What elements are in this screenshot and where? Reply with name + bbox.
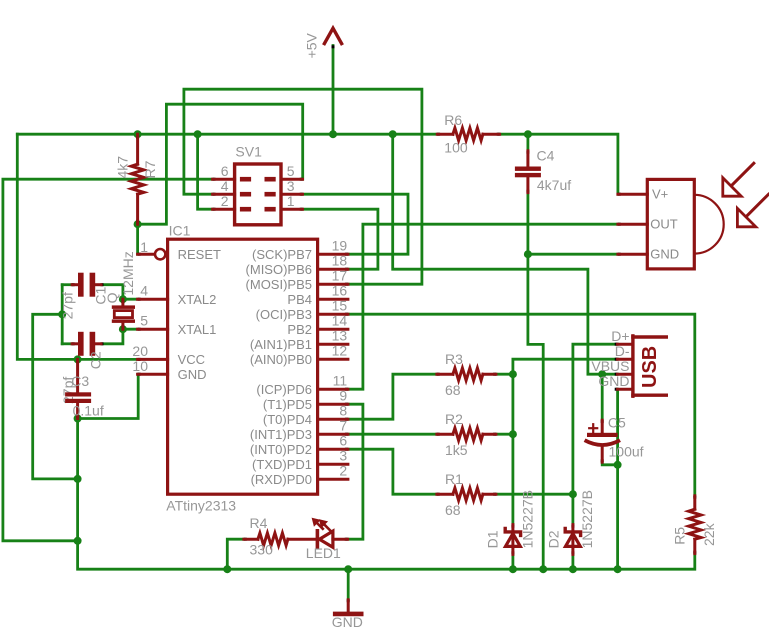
IC1 right pin numbers	[332, 238, 348, 479]
connector USB body	[633, 336, 666, 396]
svg-text:4k7uf: 4k7uf	[537, 177, 571, 193]
resistor R4	[244, 533, 316, 545]
wire IR GND to C4 node	[528, 253, 618, 256]
svg-text:C2: C2	[87, 351, 103, 369]
node R1 D+ junction	[569, 490, 577, 498]
IC1 pin 10 stub	[138, 373, 168, 376]
label SV1 pin numbers	[221, 163, 295, 209]
wire C4 bottom to GND rail	[528, 193, 543, 570]
IC1 pin 1 RESET stub	[138, 249, 166, 259]
connector USB pin stubs	[618, 344, 633, 389]
wire C1 left lead link	[62, 283, 72, 286]
node SV1 VCC junction	[194, 130, 202, 138]
wire +5V stem	[332, 46, 335, 135]
crystal Q	[112, 299, 135, 329]
svg-text:(OCI)PB3: (OCI)PB3	[256, 307, 312, 322]
svg-text:(TXD)PD1: (TXD)PD1	[252, 457, 312, 472]
wire SV1 pin3 to pin19 SCK	[303, 194, 409, 254]
svg-text:3: 3	[339, 448, 347, 464]
svg-text:(RXD)PD0: (RXD)PD0	[251, 472, 312, 487]
svg-text:C3: C3	[71, 373, 89, 389]
svg-text:100: 100	[444, 140, 468, 156]
svg-text:2: 2	[221, 193, 229, 209]
svg-text:PB4: PB4	[287, 292, 312, 307]
svg-text:0.1uf: 0.1uf	[73, 403, 104, 419]
label USB pin names	[591, 328, 629, 389]
svg-text:PB2: PB2	[287, 322, 312, 337]
resistor R3	[437, 368, 496, 380]
resistor R1	[437, 488, 496, 500]
IR receiver pin OUT	[618, 223, 647, 226]
wire R3 to pin8 T0	[348, 374, 437, 419]
svg-text:20: 20	[132, 343, 148, 359]
svg-text:C5: C5	[608, 415, 626, 431]
connector SV1 pin stubs	[213, 179, 303, 209]
node IR GND C4 junction	[524, 250, 532, 258]
wire +5V to USB VBUS	[393, 134, 618, 374]
wire R2 left to pin7 INT1	[348, 433, 437, 436]
svg-text:(MOSI)PB5: (MOSI)PB5	[246, 277, 312, 292]
svg-text:100uf: 100uf	[609, 443, 644, 459]
svg-text:D1: D1	[485, 530, 501, 548]
node R4 rail junction	[223, 565, 231, 573]
svg-text:68: 68	[445, 502, 461, 518]
svg-text:LED1: LED1	[306, 545, 341, 561]
resistor R7	[131, 134, 143, 224]
svg-text:330: 330	[250, 542, 274, 558]
svg-text:13: 13	[332, 328, 348, 344]
IC1 pin 4 stub	[138, 298, 168, 301]
svg-text:16: 16	[332, 283, 348, 299]
svg-text:XTAL2: XTAL2	[178, 292, 217, 307]
capacitor C2	[72, 332, 101, 356]
svg-text:12MHz: 12MHz	[120, 251, 136, 295]
svg-text:(SCK)PB7: (SCK)PB7	[252, 247, 312, 262]
svg-text:SV1: SV1	[235, 144, 262, 160]
wire USB GND drop	[616, 389, 619, 569]
IR receiver pin V+	[618, 193, 647, 196]
node VBUS C5 junction	[598, 370, 606, 378]
node D1 rail junction	[509, 565, 517, 573]
op-amp IC1 ATtiny2313 body	[168, 239, 318, 494]
svg-text:C4: C4	[537, 148, 555, 164]
node D2 rail junction	[569, 565, 577, 573]
wire SV1 pin4 to pin17 MOSI	[184, 89, 422, 284]
wire D1 bottom to GND rail	[512, 554, 515, 569]
svg-text:R3: R3	[445, 351, 463, 367]
wire SV1 pin6 to GND trunk	[3, 179, 213, 541]
svg-text:7: 7	[339, 418, 347, 434]
node R3 D- junction	[509, 370, 517, 378]
svg-text:10: 10	[132, 358, 148, 374]
svg-text:19: 19	[332, 238, 348, 254]
node XTAL1 junction	[119, 325, 127, 333]
svg-text:VBUS: VBUS	[591, 358, 629, 374]
svg-text:(MISO)PB6: (MISO)PB6	[246, 262, 312, 277]
svg-text:15: 15	[332, 298, 348, 314]
wire +5V rail	[17, 133, 437, 136]
LED LED1	[317, 531, 347, 548]
ground symbol	[335, 600, 361, 614]
svg-text:5: 5	[287, 163, 295, 179]
wire R4 left to GND rail	[227, 539, 244, 569]
node GND symbol junction	[344, 565, 352, 573]
connector SV1 pads	[240, 177, 276, 212]
capacitor C4	[515, 151, 541, 193]
node gnd trunk junction A	[74, 475, 82, 483]
capacitor C5	[585, 420, 620, 462]
wire R2 right to D- node	[496, 433, 513, 436]
resistor R6	[437, 128, 499, 140]
wire D2 bottom to GND rail	[572, 554, 575, 569]
svg-text:(T0)PD4: (T0)PD4	[263, 412, 312, 427]
svg-text:4: 4	[140, 283, 148, 299]
IR receiver dome	[694, 195, 723, 254]
svg-text:8: 8	[339, 403, 347, 419]
svg-text:OUT: OUT	[650, 217, 678, 232]
svg-text:R1: R1	[445, 471, 463, 487]
wire C1 right to XTAL2 node	[103, 285, 123, 300]
svg-text:R2: R2	[445, 411, 463, 427]
resistor R5	[689, 496, 701, 554]
svg-text:6: 6	[221, 163, 229, 179]
svg-text:11: 11	[333, 373, 348, 389]
wire SV1 pin2 to +5V rail	[198, 134, 213, 209]
wire C2 left lead link	[62, 342, 72, 345]
wire pin6 INT0 to R1	[348, 449, 437, 494]
svg-text:3: 3	[287, 178, 295, 194]
svg-text:ATtiny2313: ATtiny2313	[166, 497, 236, 513]
resistor R2	[437, 428, 496, 440]
svg-text:4: 4	[221, 178, 229, 194]
wire R1 right to D+ node	[496, 493, 573, 496]
svg-text:6: 6	[339, 433, 347, 449]
node XTAL2 junction	[119, 295, 127, 303]
power +5V arrow	[324, 28, 341, 43]
LED1 emission arrows	[312, 518, 330, 530]
node C4 rail junction	[539, 565, 547, 573]
svg-text:IC1: IC1	[169, 222, 191, 238]
svg-text:17: 17	[332, 268, 348, 284]
wire USB D+ to D2 zener	[573, 344, 618, 524]
svg-text:VCC: VCC	[178, 352, 205, 367]
IR receiver body	[647, 179, 694, 269]
node USB GND rail junction	[614, 565, 622, 573]
wire C5 top lead tap	[601, 374, 604, 420]
IC1 pin 20 stub	[138, 358, 168, 361]
wire GND rail	[78, 419, 695, 570]
svg-text:27pf: 27pf	[59, 292, 75, 319]
svg-text:D-: D-	[615, 343, 630, 359]
wire RESET node to SV1 pin5	[138, 104, 303, 224]
svg-text:2: 2	[339, 463, 347, 479]
wire IR OUT to pin11 ICP	[348, 224, 618, 389]
wire C3 bottom to pin10 GND	[78, 374, 139, 418]
svg-text:68: 68	[445, 382, 461, 398]
node R7 bottom junction	[134, 220, 142, 228]
svg-text:14: 14	[332, 313, 348, 329]
node C5 gnd junction	[614, 461, 622, 469]
svg-text:22k: 22k	[701, 522, 717, 546]
svg-text:9: 9	[339, 388, 347, 404]
capacitor C3	[65, 359, 91, 418]
wire C5 bottom to GND	[602, 462, 617, 465]
svg-text:4k7: 4k7	[115, 156, 131, 179]
connector SV1 body	[235, 164, 281, 225]
capacitor C1	[72, 273, 101, 297]
svg-text:1: 1	[287, 193, 295, 209]
wire XTAL1 node to pin5	[123, 328, 138, 331]
wire R7 bottom to RESET	[136, 224, 139, 254]
svg-text:R4: R4	[250, 515, 268, 531]
node C4 top junction	[524, 130, 532, 138]
node R2 D- junction	[509, 430, 517, 438]
IC1 pin 5 stub	[138, 328, 168, 331]
svg-text:GND: GND	[178, 367, 207, 382]
svg-text:(ICP)PD6: (ICP)PD6	[256, 382, 312, 397]
diode D1 zener	[505, 525, 520, 555]
IR arrow 1	[723, 163, 754, 196]
svg-text:(T1)PD5: (T1)PD5	[263, 397, 312, 412]
wire R6 output to IR V+	[500, 134, 618, 194]
svg-text:GND: GND	[332, 614, 363, 630]
wire C1 C2 ground branch	[61, 285, 64, 344]
wire SV1 pin1 to pin18 MISO	[303, 209, 378, 269]
wire cap branch to GND trunk	[33, 314, 78, 479]
svg-text:GND: GND	[598, 373, 629, 389]
wire pin9 T1 to LED1	[348, 404, 363, 539]
svg-text:1N5227B: 1N5227B	[579, 490, 595, 548]
svg-text:1N5227B: 1N5227B	[519, 490, 535, 548]
svg-text:12: 12	[332, 343, 348, 359]
svg-text:(AIN1)PB1: (AIN1)PB1	[250, 337, 312, 352]
wire GND symbol stem	[347, 569, 350, 600]
svg-text:1k5: 1k5	[445, 442, 468, 458]
svg-text:(AIN0)PB0: (AIN0)PB0	[250, 352, 312, 367]
IR arrow 2	[737, 194, 768, 227]
node R7 top junction	[134, 130, 142, 138]
svg-text:D+: D+	[611, 328, 629, 344]
svg-text:USB: USB	[639, 346, 661, 388]
svg-text:+5V: +5V	[303, 32, 319, 58]
svg-text:5: 5	[140, 313, 148, 329]
wire C4 top lead tap	[527, 134, 530, 151]
wire R3 right to D- node	[496, 373, 513, 376]
pin connection ticks	[72, 45, 697, 602]
IC1 right pin stubs	[318, 254, 348, 479]
wire XTAL2 node to pin4	[123, 298, 138, 301]
wire VCC riser and VCC row to pin20	[17, 134, 137, 359]
svg-text:1: 1	[140, 239, 148, 255]
svg-text:R7: R7	[142, 160, 158, 178]
svg-text:GND: GND	[650, 247, 679, 262]
svg-text:(INT0)PD2: (INT0)PD2	[250, 442, 312, 457]
IC1 left pin names	[178, 247, 221, 382]
wire C2 right to XTAL1 node	[103, 329, 123, 344]
svg-text:R5: R5	[672, 527, 688, 545]
svg-text:V+: V+	[652, 187, 668, 202]
svg-text:R6: R6	[444, 112, 462, 128]
svg-text:D2: D2	[545, 530, 561, 548]
node C1 C2 gnd junction	[58, 310, 66, 318]
node VBUS branch junction	[389, 130, 397, 138]
IR receiver pin GND	[618, 253, 647, 256]
svg-text:XTAL1: XTAL1	[178, 322, 217, 337]
node gnd trunk junction B	[74, 537, 82, 545]
wire USB D- to D1 zener	[513, 359, 618, 524]
svg-text:18: 18	[332, 253, 348, 269]
diode D2 zener	[565, 525, 580, 555]
node C3 bottom junction	[74, 415, 82, 423]
node VCC C3 junction	[74, 355, 82, 363]
svg-text:(INT1)PD3: (INT1)PD3	[250, 427, 312, 442]
svg-text:C1: C1	[93, 286, 109, 304]
svg-text:RESET: RESET	[178, 247, 221, 262]
wire pin15 PB3 to R5	[348, 314, 695, 496]
IC1 right pin names	[246, 247, 312, 487]
IC1 left pin numbers	[132, 239, 148, 374]
node +5V arrow junction	[329, 130, 337, 138]
